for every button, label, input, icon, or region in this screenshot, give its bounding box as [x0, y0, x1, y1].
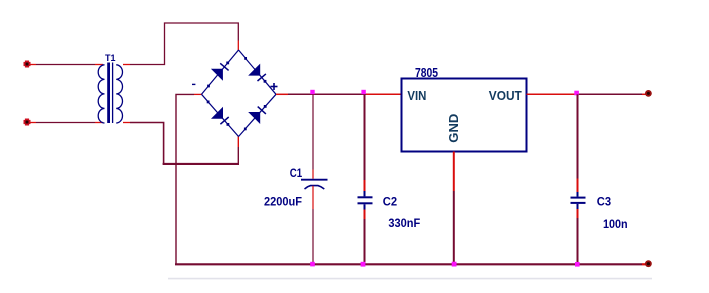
capacitor C3 wire bottom — [577, 204, 579, 209]
bridge plus mark — [271, 86, 278, 88]
wire bridge minus to ground rail — [194, 93, 202, 95]
ground rail — [175, 263, 642, 265]
svg-text:330nF: 330nF — [388, 216, 420, 230]
junction node C2/rail — [361, 90, 365, 94]
capacitor C2 wire bottom — [364, 204, 366, 209]
svg-text:GND: GND — [447, 114, 461, 143]
diode D2 (bridge, bottom to right) — [239, 94, 277, 136]
capacitor C1 curved plate — [305, 186, 325, 189]
diode D4 (bridge, left to bottom) — [202, 94, 239, 136]
transformer T1 secondary winding — [116, 65, 122, 123]
svg-text:100n: 100n — [603, 217, 628, 231]
transformer T1 primary winding — [98, 65, 104, 123]
left input terminal bottom — [24, 119, 31, 126]
output terminal bottom — [645, 260, 652, 267]
junction node C3/rail — [574, 91, 579, 96]
regulator GND pin wire — [453, 152, 455, 192]
capacitor C1 wire bottom — [312, 186, 314, 209]
capacitor C3 wire top — [577, 94, 579, 178]
svg-text:VIN: VIN — [407, 88, 426, 103]
capacitor C3 plates — [571, 197, 586, 199]
capacitor C1 plate — [301, 179, 328, 181]
regulator U1 7805 box — [402, 79, 527, 152]
junction GND/ground — [452, 262, 457, 267]
svg-text:2200uF: 2200uF — [264, 195, 302, 209]
capacitor C1 wire top — [312, 94, 314, 169]
output terminal top — [645, 90, 652, 97]
artifact line — [168, 278, 652, 280]
junction C1/ground — [310, 262, 315, 267]
wire secondary bottom to bridge — [123, 122, 130, 124]
svg-text:T1: T1 — [105, 53, 116, 63]
junction C2/ground — [361, 262, 366, 267]
svg-text:C1: C1 — [290, 166, 303, 180]
wire input top — [31, 64, 37, 66]
diode D1 (bridge, top to right) — [239, 50, 277, 94]
svg-text:C2: C2 — [383, 194, 398, 208]
wire VOUT to output terminal — [527, 93, 575, 95]
svg-text:7805: 7805 — [415, 66, 438, 80]
capacitor C2 plates — [358, 196, 373, 198]
wire secondary top to bridge — [123, 64, 130, 66]
svg-text:C3: C3 — [597, 194, 612, 208]
transformer T1 core — [107, 63, 110, 124]
diode D3 (bridge, left to top) — [202, 50, 239, 94]
junction node C1/rail — [310, 90, 314, 94]
junction C3/ground — [575, 262, 580, 267]
wire input bottom — [31, 122, 37, 124]
wire bridge plus to VIN — [276, 93, 288, 95]
left input terminal top — [24, 61, 31, 68]
svg-text:VOUT: VOUT — [489, 88, 522, 103]
capacitor C2 wire top — [364, 94, 366, 180]
bridge minus mark — [192, 83, 195, 85]
